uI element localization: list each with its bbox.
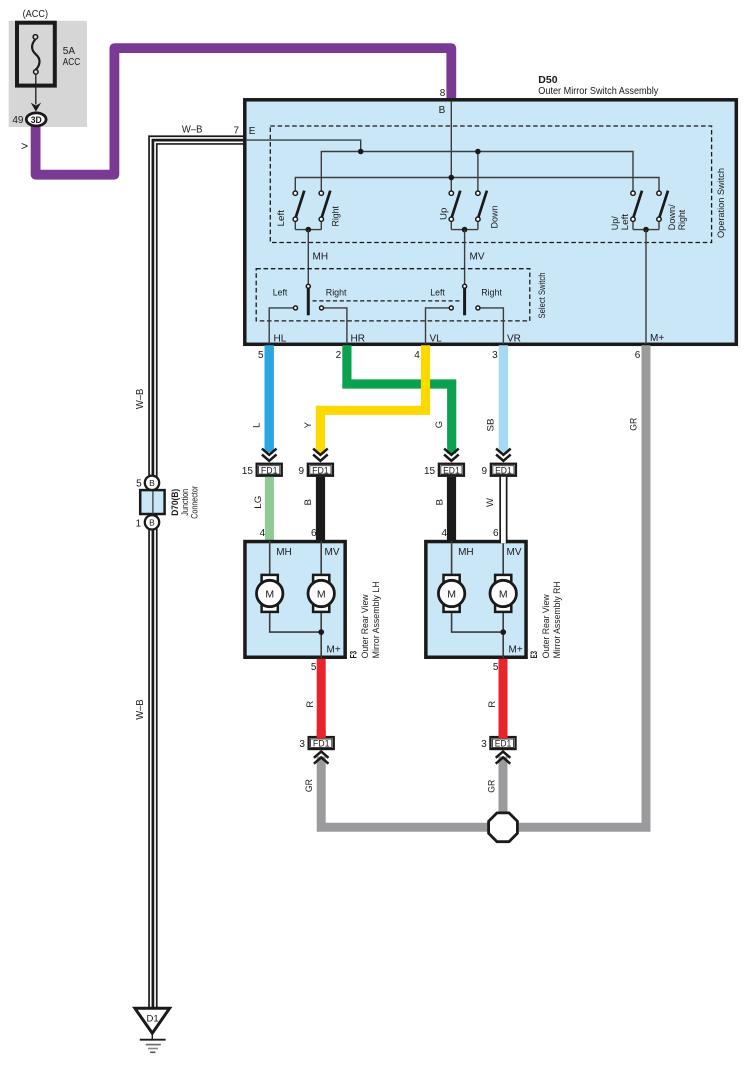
svg-text:5A: 5A xyxy=(63,46,76,57)
svg-text:5: 5 xyxy=(136,479,142,490)
svg-text:6: 6 xyxy=(493,528,499,539)
svg-text:Left: Left xyxy=(276,209,286,226)
svg-text:B: B xyxy=(149,478,155,488)
svg-text:Up: Up xyxy=(438,208,448,221)
svg-text:Select Switch: Select Switch xyxy=(537,273,548,319)
svg-text:Mirror Assembly LH: Mirror Assembly LH xyxy=(371,581,381,658)
svg-text:ED1: ED1 xyxy=(495,465,512,475)
svg-text:Right: Right xyxy=(330,206,340,227)
svg-text:6: 6 xyxy=(311,528,317,539)
svg-text:MV: MV xyxy=(470,252,485,263)
svg-text:M: M xyxy=(265,588,274,600)
svg-text:5: 5 xyxy=(493,662,499,673)
svg-text:M: M xyxy=(447,588,456,600)
svg-text:R: R xyxy=(305,701,316,708)
svg-text:GR: GR xyxy=(304,779,315,792)
svg-text:M+: M+ xyxy=(509,644,523,655)
svg-text:1: 1 xyxy=(136,518,142,529)
svg-text:B: B xyxy=(149,518,155,528)
svg-text:Connector: Connector xyxy=(190,486,200,519)
svg-text:Left: Left xyxy=(430,287,445,298)
svg-text:3: 3 xyxy=(481,739,487,750)
svg-text:Right: Right xyxy=(481,287,502,298)
svg-text:M: M xyxy=(317,588,326,600)
svg-text:D1: D1 xyxy=(147,1014,159,1025)
svg-text:GR: GR xyxy=(628,418,639,431)
svg-text:Right: Right xyxy=(677,209,687,230)
svg-text:15: 15 xyxy=(242,466,254,477)
svg-text:9: 9 xyxy=(482,466,488,477)
svg-text:G: G xyxy=(434,421,445,428)
svg-text:4: 4 xyxy=(442,528,448,539)
svg-text:Up/: Up/ xyxy=(610,216,620,230)
svg-text:Y: Y xyxy=(303,421,314,428)
svg-text:FD1: FD1 xyxy=(312,465,329,475)
svg-text:Outer Rear View: Outer Rear View xyxy=(541,594,551,658)
svg-text:MV: MV xyxy=(325,547,340,558)
svg-text:Left: Left xyxy=(620,213,630,230)
svg-text:ED1: ED1 xyxy=(495,739,512,749)
svg-text:M+: M+ xyxy=(650,333,664,344)
svg-text:Left: Left xyxy=(273,287,288,298)
svg-text:HR: HR xyxy=(351,334,365,345)
svg-text:9: 9 xyxy=(299,466,305,477)
svg-text:FD1: FD1 xyxy=(261,465,278,475)
svg-text:VR: VR xyxy=(507,334,521,345)
svg-text:ACC: ACC xyxy=(63,57,80,68)
svg-text:E3: E3 xyxy=(529,651,540,659)
svg-text:VL: VL xyxy=(430,334,443,345)
svg-text:B: B xyxy=(435,499,446,505)
svg-text:Outer Rear View: Outer Rear View xyxy=(360,594,370,658)
svg-text:W–B: W–B xyxy=(135,388,146,409)
svg-text:M: M xyxy=(499,588,508,600)
svg-text:6: 6 xyxy=(635,350,641,361)
svg-text:L: L xyxy=(252,423,263,428)
svg-text:3D: 3D xyxy=(31,115,42,125)
svg-text:FD1: FD1 xyxy=(313,739,330,749)
svg-text:B: B xyxy=(439,105,446,116)
svg-text:Right: Right xyxy=(326,287,347,298)
svg-text:5: 5 xyxy=(258,350,264,361)
svg-text:GR: GR xyxy=(486,780,497,793)
svg-text:R: R xyxy=(487,701,498,708)
svg-text:3: 3 xyxy=(299,739,305,750)
svg-text:(ACC): (ACC) xyxy=(23,9,48,20)
svg-text:HL: HL xyxy=(274,334,287,345)
svg-text:Junction: Junction xyxy=(180,489,190,516)
svg-text:MH: MH xyxy=(458,547,474,558)
svg-text:M+: M+ xyxy=(327,644,341,655)
svg-text:3: 3 xyxy=(492,350,498,361)
svg-text:E: E xyxy=(249,126,256,137)
svg-text:7: 7 xyxy=(233,126,239,137)
svg-text:MH: MH xyxy=(276,547,292,558)
svg-text:MV: MV xyxy=(507,547,522,558)
svg-text:W: W xyxy=(485,498,496,507)
svg-text:LG: LG xyxy=(253,496,264,509)
svg-text:B: B xyxy=(303,499,314,505)
svg-text:2: 2 xyxy=(336,350,342,361)
svg-text:4: 4 xyxy=(260,528,266,539)
svg-text:4: 4 xyxy=(414,350,420,361)
svg-text:Outer Mirror Switch Assembly: Outer Mirror Switch Assembly xyxy=(538,85,659,97)
svg-text:Operation Switch: Operation Switch xyxy=(716,168,727,238)
svg-text:>: > xyxy=(21,139,28,153)
svg-text:Down: Down xyxy=(489,205,499,228)
svg-text:Mirror Assembly RH: Mirror Assembly RH xyxy=(552,581,562,658)
svg-text:5: 5 xyxy=(311,662,317,673)
svg-text:49: 49 xyxy=(12,115,24,126)
svg-text:W–B: W–B xyxy=(135,699,146,720)
svg-text:ED1: ED1 xyxy=(443,465,460,475)
svg-text:8: 8 xyxy=(440,88,446,99)
svg-text:Down/: Down/ xyxy=(667,204,677,231)
svg-text:F3: F3 xyxy=(348,651,359,659)
svg-text:15: 15 xyxy=(424,466,436,477)
svg-text:MH: MH xyxy=(313,252,329,263)
svg-text:SB: SB xyxy=(486,419,497,432)
svg-text:W–B: W–B xyxy=(182,125,203,136)
